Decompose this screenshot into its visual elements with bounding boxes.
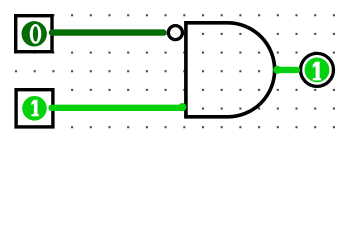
AND gate U1 body: [186, 23, 275, 117]
wire from input B to gate lower input (logic 1, bright green): [52, 103, 187, 111]
input pin A (value 0): [16, 16, 52, 52]
wire from gate output to output pin (logic 1, bright green): [273, 66, 297, 74]
output pin Y (value 1): [301, 53, 334, 86]
input pin B (value 1): [16, 90, 53, 127]
wire from input A to negated-input bubble (logic 0, dark green): [52, 29, 164, 35]
negation bubble on upper input of U1: [168, 26, 182, 40]
